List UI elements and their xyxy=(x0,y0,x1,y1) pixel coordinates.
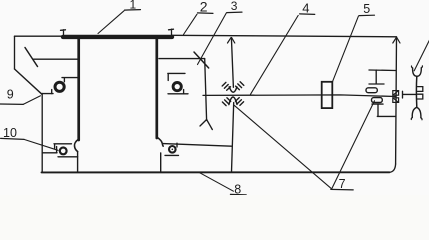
top plate left end tick xyxy=(61,30,66,35)
svg-text:8: 8 xyxy=(234,183,241,195)
clutch lower stem xyxy=(377,104,379,116)
right chamber chute diagonal xyxy=(194,52,209,68)
left chamber shelf xyxy=(33,58,78,60)
svg-text:5: 5 xyxy=(363,2,370,16)
lower-right roller tick xyxy=(176,143,178,147)
clutch upper crossbar xyxy=(369,83,384,85)
column left wall foot jog xyxy=(74,139,78,152)
leader line 7 right xyxy=(332,101,375,189)
top frame line right segment xyxy=(172,35,397,37)
upper-left roller ledge tick xyxy=(51,90,53,94)
clutch lower arm to frame xyxy=(377,115,395,117)
column left wall lower stem xyxy=(77,152,79,172)
upper-right roller bracket xyxy=(168,73,185,80)
tension link left tick line xyxy=(403,91,417,98)
top plate right end tick xyxy=(169,29,174,34)
tension link nut lower xyxy=(418,94,423,99)
leader line 10 xyxy=(24,139,58,150)
lower-left roller under ledge xyxy=(58,156,78,158)
lower-left ledge tick xyxy=(56,147,58,153)
right frame vertical xyxy=(395,37,398,164)
svg-text:4: 4 xyxy=(302,0,309,15)
svg-text:7: 7 xyxy=(339,177,346,191)
tension link top fork xyxy=(413,68,422,77)
clutch upper arm to frame xyxy=(369,69,396,72)
arrow tick at right frame top xyxy=(393,38,400,43)
right chamber lower V mark right xyxy=(207,120,213,130)
upper-left roller bracket xyxy=(62,78,78,82)
upper-right roller 9b xyxy=(173,83,181,91)
arrow tick at x=231 xyxy=(228,38,235,43)
tension link bottom fork xyxy=(412,107,421,118)
svg-text:9: 9 xyxy=(7,88,14,102)
upper-left roller ledge xyxy=(42,93,53,95)
bevel gear lower-right tooth band xyxy=(235,98,243,106)
bevel gear lower-left tooth band xyxy=(222,98,230,106)
svg-text:10: 10 xyxy=(3,126,17,140)
column right wall foot jog xyxy=(157,137,163,146)
right chamber shelf xyxy=(159,58,205,60)
bearing block lower xyxy=(393,98,399,103)
column right wall lower stem xyxy=(160,153,162,172)
lower-left roller bracket xyxy=(54,144,72,148)
bottom frame line 8 xyxy=(42,171,390,173)
lower-right under ledge xyxy=(165,154,179,156)
leader line 9 xyxy=(23,96,40,105)
upper-left roller 9 xyxy=(55,82,64,91)
leader line 2 xyxy=(184,14,198,34)
lower-right roller 10b xyxy=(169,146,176,153)
clutch upper pad capsule xyxy=(366,88,377,93)
column right wall xyxy=(155,39,158,139)
bevel gear lower arch xyxy=(229,97,237,105)
leader line 3 xyxy=(198,13,227,65)
upper-right roller ledge tick xyxy=(183,90,185,94)
right chamber lower V mark left xyxy=(200,120,207,127)
right chamber vertical xyxy=(205,59,207,121)
column left wall xyxy=(77,39,80,141)
horizontal drive shaft 4 xyxy=(203,95,396,97)
lower-left roller 10 xyxy=(60,148,67,155)
leader line 8 xyxy=(200,173,234,192)
svg-text:3: 3 xyxy=(231,0,238,13)
tension link bar xyxy=(415,76,417,107)
bottom right rounded corner xyxy=(390,164,396,172)
lower-left pedestal ledge xyxy=(42,152,57,154)
leader line 1 xyxy=(98,11,124,34)
leader line 5 xyxy=(333,16,359,82)
leader line 7 left xyxy=(234,105,331,188)
hopper slanted wall xyxy=(15,69,43,94)
bevel gear upper cup xyxy=(229,87,237,92)
lower-right chamber line to center vertical xyxy=(163,144,231,147)
upper-right roller ledge xyxy=(168,93,188,95)
svg-text:2: 2 xyxy=(200,0,208,15)
leader from image edge to tension link xyxy=(414,40,429,71)
top frame line left segment xyxy=(15,35,64,37)
coupling rectangle 5 xyxy=(322,82,333,108)
center vertical shaft lower xyxy=(232,103,234,172)
bevel gear upper-right tooth band xyxy=(236,82,244,90)
top plate bar 1 xyxy=(63,35,172,39)
left support long vertical xyxy=(41,94,43,172)
center vertical shaft upper xyxy=(231,38,233,88)
clutch lower crossbar xyxy=(372,103,383,105)
clutch upper stem xyxy=(375,70,377,84)
bearing block upper xyxy=(393,91,399,96)
bevel gear upper-left tooth band xyxy=(222,82,230,90)
tension link nut upper xyxy=(418,87,423,92)
clutch lower pad capsule xyxy=(372,98,383,103)
hopper left wall xyxy=(14,36,16,69)
hopper chute diagonal xyxy=(25,48,38,67)
leader line 4 xyxy=(251,15,299,94)
